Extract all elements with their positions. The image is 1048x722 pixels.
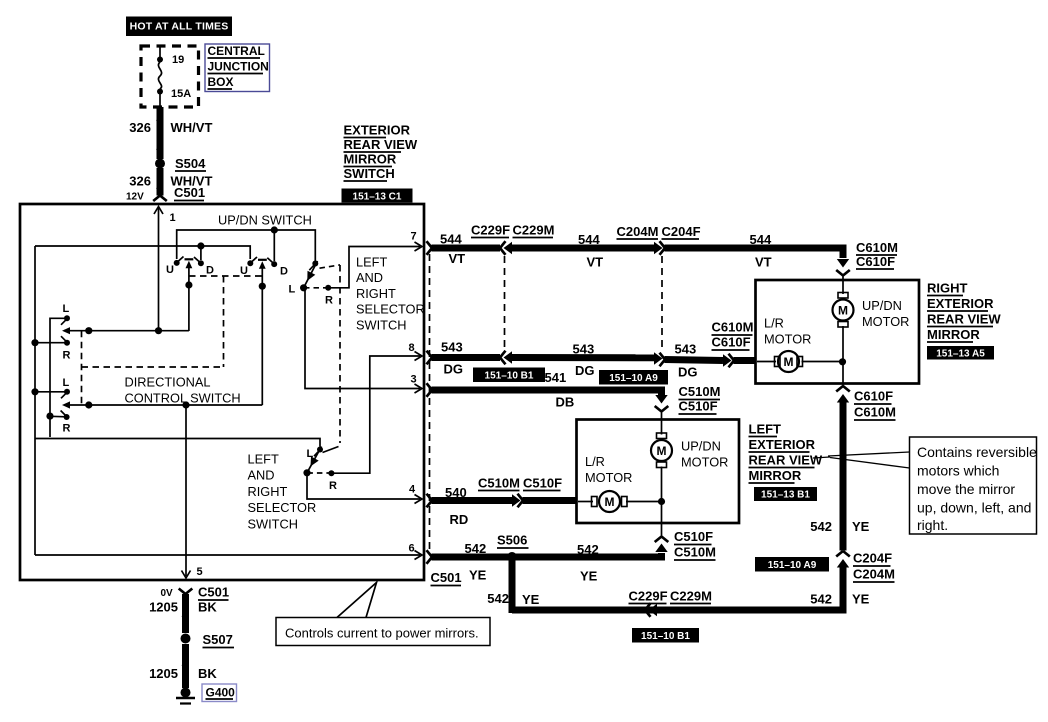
selector switch upper wiper blade — [304, 261, 340, 288]
svg-text:DB: DB — [556, 395, 575, 410]
svg-text:YE: YE — [522, 592, 540, 607]
svg-text:up, down, left, and: up, down, left, and — [917, 500, 1031, 516]
wire 543 DG: switch to C229 — [427, 340, 506, 377]
svg-text:EXTERIOR: EXTERIOR — [344, 123, 411, 138]
svg-text:LEFT: LEFT — [356, 255, 387, 270]
up/dn switch pole 2 — [240, 257, 288, 405]
wire 541 DB: switch to C510 — [427, 370, 662, 410]
wire 326 WH/VT (S504 to C501) — [129, 168, 212, 196]
right mirror: up/dn motor label — [862, 298, 909, 329]
grid ref 151-13 B1 — [754, 487, 817, 501]
svg-text:UP/DN: UP/DN — [862, 298, 902, 313]
svg-text:544: 544 — [578, 232, 600, 247]
svg-text:540: 540 — [445, 485, 467, 500]
svg-text:542: 542 — [810, 592, 832, 607]
svg-text:BK: BK — [198, 600, 217, 615]
exterior rear view mirror switch label — [344, 123, 418, 182]
svg-text:REAR VIEW: REAR VIEW — [749, 453, 823, 468]
fuse 19 / 15A — [157, 46, 191, 107]
svg-text:MIRROR: MIRROR — [344, 152, 397, 167]
wire: feed to selector lower L contact — [35, 439, 320, 447]
svg-text:C510M: C510M — [679, 384, 721, 399]
svg-text:M: M — [605, 495, 615, 509]
svg-text:U: U — [166, 264, 174, 276]
connector C510F/C510M (up into left mirror) — [655, 523, 716, 560]
wire 542 YE: switch to S506 — [427, 541, 513, 586]
svg-text:MIRROR: MIRROR — [927, 327, 980, 342]
svg-text:move the mirror: move the mirror — [917, 481, 1015, 497]
svg-text:S504: S504 — [175, 156, 206, 171]
svg-text:3: 3 — [411, 374, 417, 386]
selector switch lower label — [248, 452, 317, 532]
svg-text:542: 542 — [487, 591, 509, 606]
central junction box (dashed fuse box) — [141, 46, 199, 107]
svg-text:151–13 A5: 151–13 A5 — [936, 349, 985, 360]
wire: selector upper pivot to pin 3 — [304, 288, 420, 389]
wire 1205 BK (S507 to G400) — [149, 644, 217, 688]
right mirror: l/r motor M — [757, 351, 846, 372]
svg-text:326: 326 — [129, 174, 151, 189]
svg-text:BOX: BOX — [208, 75, 234, 89]
svg-text:C204M: C204M — [853, 567, 895, 582]
svg-text:JUNCTION: JUNCTION — [208, 60, 269, 74]
mechanical link (dashed) up/dn wipers — [82, 276, 263, 405]
svg-text:D: D — [206, 265, 214, 277]
wire: pin 6 row inside box — [35, 543, 422, 560]
wire: selector lower R to pin 8 — [331, 356, 420, 473]
svg-text:C610M: C610M — [856, 240, 898, 255]
wire 540: C510 into left mirror box — [523, 497, 578, 504]
svg-text:RIGHT: RIGHT — [356, 286, 396, 301]
ground G400 label — [202, 684, 237, 702]
connector C501 pin 1 (top) — [126, 185, 205, 331]
svg-text:VT: VT — [449, 251, 466, 266]
svg-text:DIRECTIONAL: DIRECTIONAL — [125, 375, 211, 390]
svg-text:1205: 1205 — [149, 666, 178, 681]
left exterior rear view mirror label — [749, 422, 823, 484]
wire 543 DG: C229 to C204 — [511, 342, 654, 379]
svg-text:WH/VT: WH/VT — [171, 120, 213, 135]
grid ref 151-10 B1 (bottom) — [632, 628, 699, 643]
svg-text:YE: YE — [469, 568, 487, 583]
svg-text:SELECTOR: SELECTOR — [248, 500, 317, 515]
svg-text:151–13 B1: 151–13 B1 — [761, 490, 810, 501]
svg-text:C501: C501 — [431, 570, 462, 585]
svg-text:1: 1 — [170, 212, 176, 224]
right exterior mirror box — [756, 280, 920, 384]
wire 543 DG: C204 to C610 — [665, 342, 724, 380]
svg-text:151–10 B1: 151–10 B1 — [485, 371, 534, 382]
svg-text:M: M — [784, 355, 794, 369]
right mirror: up/dn motor M — [833, 281, 854, 383]
central junction box label — [205, 44, 270, 92]
pin 7 arrow — [411, 231, 423, 252]
svg-text:C610F: C610F — [712, 335, 751, 350]
pin 4 arrow — [409, 484, 422, 504]
wire: selector upper R to pin 7 — [328, 247, 420, 288]
svg-text:EXTERIOR: EXTERIOR — [927, 296, 994, 311]
svg-text:C204F: C204F — [662, 224, 701, 239]
connector C229F C229M (top) — [471, 223, 554, 255]
connector C510M/C510F (down into left mirror) — [655, 384, 721, 420]
selector switch upper: feed and contacts — [289, 261, 334, 307]
harness boundary dashed C229 (top) — [504, 256, 506, 351]
svg-text:DG: DG — [678, 365, 698, 380]
svg-text:G400: G400 — [206, 686, 236, 700]
splice S507 — [181, 632, 235, 648]
connector C610M/C610F (543 row) — [712, 320, 754, 368]
directional control switch lower wiper (to pin 5) — [62, 401, 262, 408]
svg-text:326: 326 — [129, 120, 151, 135]
right mirror: l/r motor label — [764, 316, 811, 347]
wire 540 RD: switch to C510 — [427, 485, 513, 527]
svg-text:YE: YE — [852, 592, 870, 607]
svg-text:REAR VIEW: REAR VIEW — [927, 312, 1001, 327]
svg-text:VT: VT — [755, 255, 772, 270]
selector switch upper label — [356, 255, 425, 333]
grid ref 151-10 A9 (right) — [755, 557, 829, 572]
left mirror: l/r motor label — [585, 454, 632, 485]
svg-text:MOTOR: MOTOR — [681, 455, 728, 470]
grid ref 151-13 A5 — [927, 346, 994, 360]
svg-text:S506: S506 — [497, 533, 527, 548]
svg-text:542: 542 — [465, 541, 487, 556]
svg-text:151–10 A9: 151–10 A9 — [768, 560, 817, 571]
left mirror: up/dn motor label — [681, 439, 728, 470]
svg-text:C501: C501 — [174, 185, 205, 200]
svg-text:R: R — [329, 480, 337, 492]
left mirror: l/r motor M — [578, 491, 665, 512]
wire: selector lower pivot to pin 4 — [307, 473, 420, 499]
svg-text:C229M: C229M — [670, 589, 712, 604]
splice S506 — [497, 533, 529, 563]
svg-text:L: L — [63, 303, 70, 315]
svg-text:DG: DG — [575, 363, 595, 378]
svg-text:544: 544 — [750, 232, 772, 247]
svg-text:SWITCH: SWITCH — [356, 317, 406, 332]
directional control switch label — [125, 375, 241, 406]
svg-text:S507: S507 — [203, 632, 233, 647]
svg-text:C510M: C510M — [674, 545, 716, 560]
wire 542 YE: S506 drop — [487, 557, 539, 613]
svg-text:AND: AND — [248, 468, 275, 483]
directional control switch upper contacts L/R — [31, 303, 70, 437]
wire: up/dn switch top feed — [177, 226, 316, 261]
svg-text:L/R: L/R — [585, 454, 605, 469]
svg-text:0V: 0V — [161, 588, 174, 599]
svg-text:544: 544 — [440, 232, 462, 247]
svg-text:CONTROL SWITCH: CONTROL SWITCH — [125, 391, 241, 406]
selector switch lower: contacts — [303, 447, 337, 493]
svg-text:C610M: C610M — [712, 320, 754, 335]
svg-text:RIGHT: RIGHT — [248, 484, 288, 499]
connector C204M/C204F (543 row) — [654, 352, 665, 366]
wire 544 VT: C229 to C204 — [511, 232, 654, 270]
wire 1205 BK (C501 to S507) — [149, 594, 217, 633]
svg-text:C204M: C204M — [617, 224, 659, 239]
svg-text:4: 4 — [409, 484, 416, 496]
svg-text:C510F: C510F — [523, 476, 562, 491]
left exterior mirror box — [577, 420, 740, 524]
svg-text:L/R: L/R — [764, 316, 784, 331]
svg-text:MOTOR: MOTOR — [585, 470, 632, 485]
svg-text:C510F: C510F — [674, 529, 713, 544]
svg-text:151–10 A9: 151–10 A9 — [609, 373, 658, 384]
svg-text:LEFT: LEFT — [248, 452, 279, 467]
svg-text:C610M: C610M — [854, 405, 896, 420]
svg-text:Controls current to power mirr: Controls current to power mirrors. — [285, 626, 479, 641]
connector C610M C610F (right top) — [836, 240, 898, 281]
wire 544 VT: C204 to right mirror — [665, 232, 844, 270]
connector C510M C510F (540 row) — [478, 476, 562, 508]
right exterior rear view mirror label — [927, 281, 1001, 343]
svg-text:SELECTOR: SELECTOR — [356, 302, 425, 317]
svg-text:SWITCH: SWITCH — [248, 516, 298, 531]
svg-text:M: M — [838, 304, 848, 318]
svg-text:RD: RD — [450, 512, 469, 527]
left mirror: up/dn motor M — [651, 420, 672, 522]
svg-text:C229M: C229M — [513, 223, 555, 238]
svg-text:R: R — [325, 295, 333, 307]
svg-text:D: D — [280, 266, 288, 278]
wire 543: C610 into right mirror box — [734, 357, 757, 364]
svg-text:7: 7 — [411, 231, 417, 243]
wire 544 VT: switch to C229 — [427, 232, 506, 267]
svg-text:BK: BK — [198, 666, 217, 681]
svg-text:542: 542 — [810, 519, 832, 534]
svg-text:CENTRAL: CENTRAL — [208, 44, 265, 58]
svg-text:RIGHT: RIGHT — [927, 281, 968, 296]
svg-text:YE: YE — [852, 519, 870, 534]
svg-text:151–10 B1: 151–10 B1 — [641, 631, 690, 642]
pin 8 arrow — [409, 342, 423, 361]
svg-text:L: L — [63, 377, 70, 389]
harness boundary dashed C204 (top) — [661, 256, 663, 351]
svg-text:19: 19 — [172, 54, 184, 66]
connector C204F/C204M (right vertical) — [836, 551, 895, 583]
wire 326 WH/VT (fuse to S504) — [129, 107, 212, 159]
selector switch lower wiper blade — [307, 447, 339, 473]
svg-text:12V: 12V — [126, 192, 144, 203]
wire 542 YE right vertical (C204 to bottom row) — [512, 568, 870, 611]
svg-text:MOTOR: MOTOR — [764, 332, 811, 347]
wire: pin 5 drop — [182, 405, 203, 578]
svg-text:8: 8 — [409, 342, 415, 354]
svg-text:151–13 C1: 151–13 C1 — [353, 192, 402, 203]
svg-text:MIRROR: MIRROR — [749, 468, 802, 483]
svg-text:motors which: motors which — [917, 463, 999, 479]
connector C229F/C229M (543 row) — [504, 351, 513, 363]
svg-text:543: 543 — [441, 340, 463, 355]
harness boundary dashed C501 — [429, 254, 431, 549]
svg-text:C510M: C510M — [478, 476, 520, 491]
ground G400 symbol — [176, 688, 195, 704]
pin 3 arrow — [411, 374, 423, 394]
svg-text:C610F: C610F — [854, 389, 893, 404]
svg-text:C501: C501 — [198, 585, 229, 600]
grid ref 151-10 A9 — [599, 370, 668, 385]
svg-text:UP/DN SWITCH: UP/DN SWITCH — [218, 213, 312, 228]
svg-text:15A: 15A — [171, 88, 191, 100]
svg-text:L: L — [289, 284, 296, 296]
connector C229F C229M (bottom row) — [629, 589, 712, 617]
grid ref 151-10 B1 — [473, 368, 545, 383]
svg-text:6: 6 — [409, 543, 415, 555]
selector switch mechanical link (dashed vertical) — [339, 265, 341, 443]
svg-text:C229F: C229F — [629, 589, 668, 604]
svg-text:right.: right. — [917, 517, 948, 533]
svg-text:LEFT: LEFT — [749, 422, 782, 437]
connector C501 pin 5 (bottom) — [161, 585, 230, 601]
svg-text:VT: VT — [587, 255, 604, 270]
wire 542 YE: S506 to left mirror C510 — [512, 542, 662, 584]
svg-text:C229F: C229F — [471, 223, 510, 238]
svg-text:5: 5 — [197, 566, 203, 578]
svg-text:Contains reversible: Contains reversible — [917, 444, 1037, 460]
connector C610F/C610M (below right mirror) — [836, 383, 896, 420]
svg-text:541: 541 — [545, 370, 567, 385]
directional control switch lower contacts L/R — [31, 377, 70, 435]
svg-text:HOT AT ALL TIMES: HOT AT ALL TIMES — [130, 21, 229, 33]
svg-text:C610F: C610F — [856, 254, 895, 269]
svg-text:C510F: C510F — [679, 399, 718, 414]
svg-text:SWITCH: SWITCH — [344, 166, 395, 181]
directional control switch upper wiper (to pin 1 feed) — [62, 327, 189, 334]
callout: controls current to power mirrors — [276, 583, 490, 646]
svg-text:M: M — [657, 444, 667, 458]
svg-text:C204F: C204F — [853, 551, 892, 566]
svg-text:543: 543 — [675, 342, 697, 357]
svg-text:542: 542 — [577, 542, 599, 557]
svg-text:R: R — [63, 350, 71, 362]
svg-text:EXTERIOR: EXTERIOR — [749, 437, 816, 452]
svg-text:543: 543 — [573, 342, 595, 357]
grid ref 151-13 C1 — [342, 189, 413, 203]
connector C204M C204F (top) — [617, 224, 701, 255]
hot at all times banner — [126, 17, 232, 37]
svg-text:AND: AND — [356, 270, 383, 285]
splice S504 — [155, 156, 206, 171]
svg-text:1205: 1205 — [149, 600, 178, 615]
up/dn switch pole 1 — [166, 257, 214, 332]
wire: outer-left column — [34, 246, 36, 555]
svg-text:R: R — [63, 423, 71, 435]
svg-text:UP/DN: UP/DN — [681, 439, 721, 454]
svg-text:REAR VIEW: REAR VIEW — [344, 137, 418, 152]
wire 542 YE right vertical (C610 to C204) — [810, 403, 869, 551]
svg-text:DG: DG — [444, 362, 464, 377]
exterior rear view mirror switch box — [20, 204, 424, 580]
callout: contains reversible motors — [813, 437, 1037, 534]
svg-text:YE: YE — [580, 569, 598, 584]
svg-text:MOTOR: MOTOR — [862, 314, 909, 329]
wire: second feed (left column to U/D contacts) — [35, 242, 250, 260]
